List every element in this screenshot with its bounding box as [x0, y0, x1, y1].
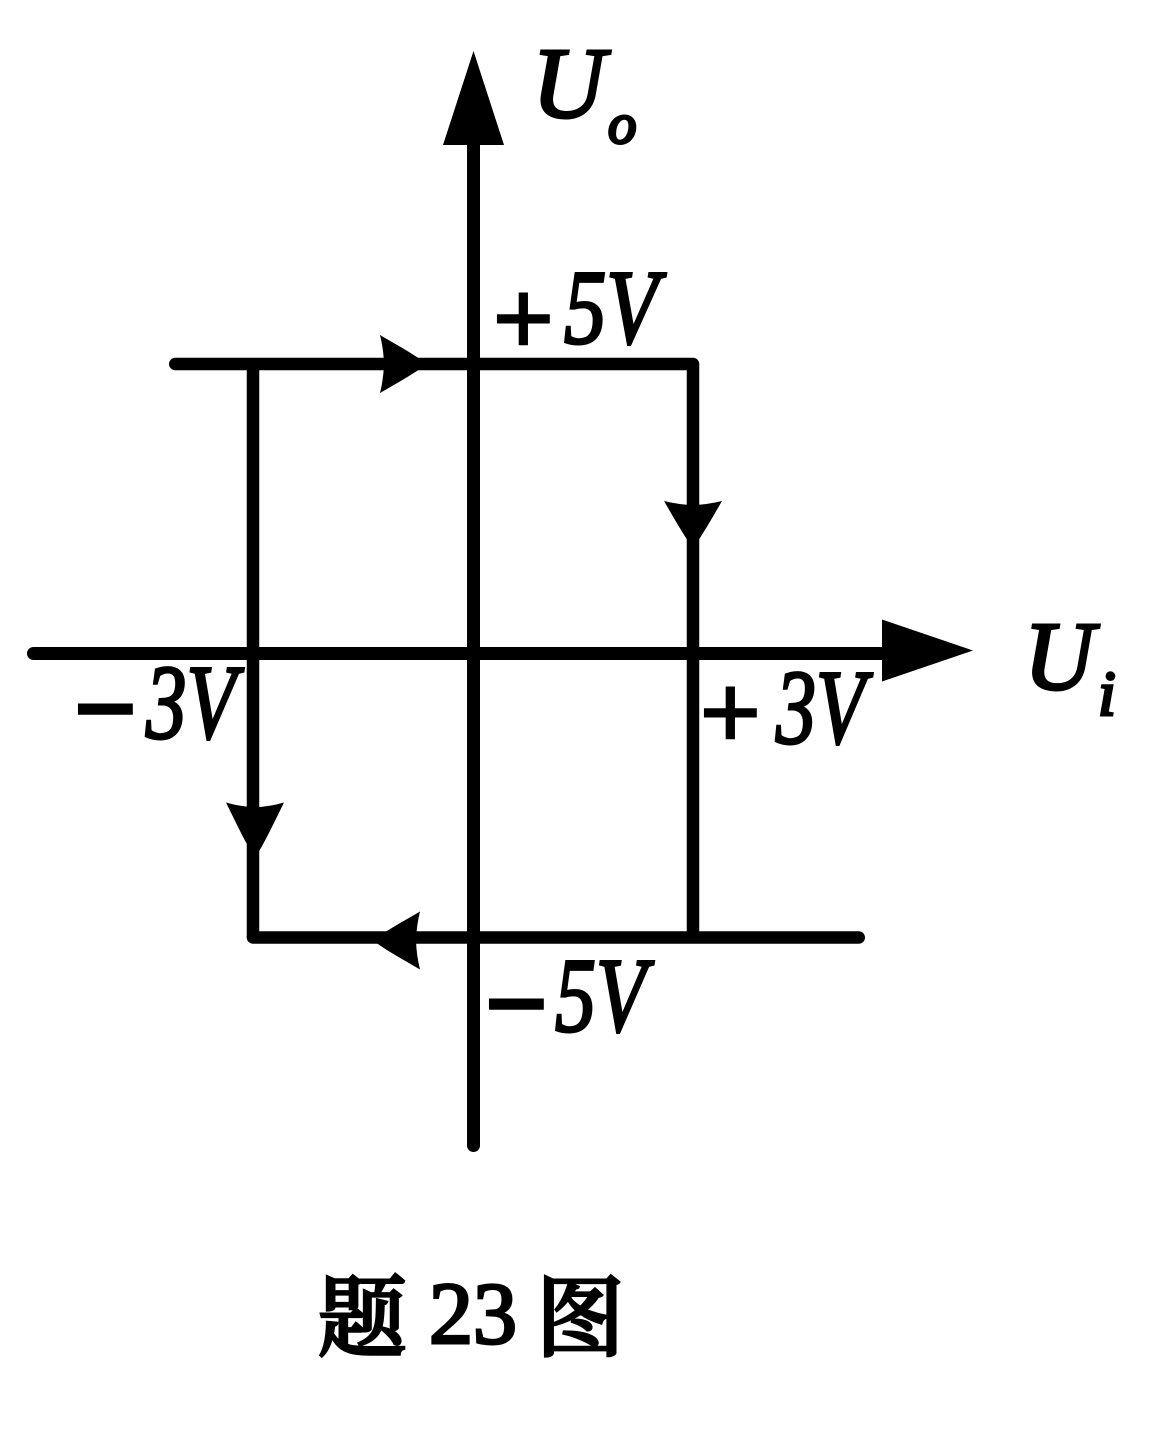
- svg-text:5V: 5V: [555, 937, 654, 1054]
- x-axis Ui: [34, 620, 974, 682]
- svg-text:3V: 3V: [145, 644, 244, 761]
- svg-text:+: +: [487, 260, 558, 377]
- y-axis Uo: [443, 51, 504, 1146]
- caption character 图: [545, 1276, 618, 1356]
- hysteresis top segment at +5V: [175, 358, 693, 371]
- hysteresis bottom segment at -5V: [253, 931, 859, 944]
- arrow down on right segment: [664, 501, 722, 548]
- svg-text:o: o: [608, 93, 637, 156]
- arrow left on bottom segment: [373, 912, 420, 970]
- svg-text:−: −: [69, 650, 140, 767]
- svg-text:3V: 3V: [775, 649, 873, 766]
- caption character 题: [321, 1274, 404, 1356]
- svg-text:U: U: [532, 27, 611, 139]
- arrow down on left segment: [226, 803, 284, 858]
- svg-text:23: 23: [429, 1266, 517, 1363]
- hysteresis right segment at +3V: [687, 364, 700, 938]
- svg-text:+: +: [694, 654, 765, 771]
- svg-text:−: −: [480, 945, 551, 1062]
- svg-text:U: U: [1024, 603, 1100, 710]
- svg-text:5V: 5V: [564, 249, 666, 366]
- svg-text:i: i: [1098, 658, 1116, 729]
- arrow right on top segment: [380, 335, 427, 393]
- hysteresis left segment at -3V: [247, 364, 260, 938]
